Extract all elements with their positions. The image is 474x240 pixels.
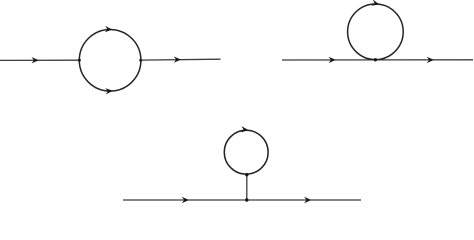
- wire propagator d2: [282, 59, 473, 61]
- wire right propagator d1: [141, 58, 221, 61]
- arrow on left propagator d1: [32, 57, 39, 63]
- vertex dot on line d3: [245, 198, 248, 201]
- vertex dot left d1: [78, 59, 81, 62]
- wire stalk d3: [246, 174, 248, 200]
- arrow on right propagator d1: [174, 56, 181, 62]
- arrow top of loop d2: [371, 0, 380, 8]
- loop circle d2: [348, 4, 404, 60]
- wire propagator d3: [123, 199, 361, 201]
- vertex dot right d1: [139, 59, 142, 62]
- vertex dot top of stalk d3: [245, 173, 248, 176]
- arrow right on propagator d3: [304, 197, 311, 203]
- arrow left on propagator d2: [329, 57, 336, 63]
- arrow top of loop d1: [105, 26, 113, 33]
- arrow right on propagator d2: [427, 57, 434, 63]
- loop circle d1: [79, 30, 141, 92]
- vertex dot d2: [374, 58, 377, 61]
- loop circle d3: [224, 130, 268, 174]
- wire left propagator d1: [0, 59, 79, 61]
- arrow left on propagator d3: [182, 197, 189, 203]
- arrow bottom of loop d1: [105, 88, 113, 95]
- arrow top of loop d3: [241, 126, 249, 133]
